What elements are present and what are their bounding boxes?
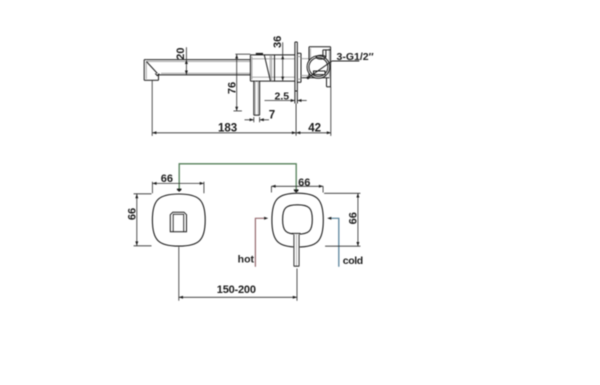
lever white mask — [293, 233, 299, 267]
cold wire arrow — [327, 217, 331, 220]
150-200 arrows — [179, 296, 183, 299]
housing top-right pipe notch — [323, 50, 331, 57]
right plate side 66 dim — [324, 192, 360, 194]
left escutcheon plate (spout, rounded square) — [152, 194, 205, 246]
150-200 dim — [178, 247, 180, 301]
in-wall valve housing — [302, 47, 331, 87]
extension line below plate (183/42 split) — [295, 104, 297, 136]
slot inside cartridge circle — [314, 71, 326, 75]
dim 42 arrows — [296, 131, 300, 134]
dimension lines, top view — [152, 42, 331, 136]
svg-text:183: 183 — [218, 122, 237, 134]
cartridge circle (G1/2 connection) — [307, 56, 330, 79]
dim 2.5 arrows — [291, 99, 295, 102]
svg-text:7: 7 — [269, 110, 275, 122]
wall escutcheon plate, edge-on — [295, 42, 297, 104]
svg-text:66: 66 — [347, 212, 359, 224]
dim 7 arrows — [250, 118, 264, 121]
dim 183 arrows — [152, 131, 156, 134]
outlet connection wire (green), mixer to spout — [179, 164, 296, 191]
housing bottom-right mounting clip — [327, 78, 331, 87]
dim 183 and 42 shared line — [152, 132, 331, 134]
svg-text:66: 66 — [161, 173, 173, 185]
svg-text:20: 20 — [175, 47, 187, 59]
green wire arrow at left plate — [177, 189, 182, 192]
set screw on body top — [256, 53, 263, 55]
svg-text:150-200: 150-200 — [217, 284, 256, 296]
svg-text:3-G1/2″: 3-G1/2″ — [337, 51, 374, 63]
hot wire arrow — [264, 217, 268, 220]
spout tip with aerator notch — [144, 60, 159, 81]
svg-text:cold: cold — [343, 255, 363, 267]
left plate side 66 dim — [134, 193, 152, 195]
svg-text:66: 66 — [298, 177, 310, 189]
svg-text:2.5: 2.5 — [274, 90, 289, 102]
spout tube (horizontal outlet pipe) — [146, 60, 250, 75]
svg-text:66: 66 — [127, 208, 139, 220]
svg-text:hot: hot — [238, 254, 255, 266]
connecting nipple behind plate — [297, 53, 309, 82]
dimension lines, bottom view — [134, 182, 361, 301]
leader line for 3-G1/2 label — [307, 61, 360, 79]
svg-text:42: 42 — [308, 122, 321, 134]
left top 66 arrows — [152, 182, 156, 185]
hot supply wire (dark red) — [255, 218, 264, 266]
right escutcheon plate (mixer, rounded square) — [272, 193, 323, 247]
cold supply wire (blue) — [331, 218, 339, 266]
dim 36 arrows — [281, 55, 284, 59]
mixer handle stem (side view, hanging down) — [254, 81, 260, 115]
dim 2.5 lines — [265, 100, 295, 102]
mixer lever handle pointing down — [291, 233, 300, 266]
left side 66 arrows — [135, 194, 138, 198]
extension line at housing right — [330, 87, 332, 136]
cartridge cap ellipse — [316, 55, 325, 59]
dim 20 line — [185, 47, 187, 75]
spout nose front view, outer — [170, 212, 186, 232]
dim 20 arrows — [185, 60, 188, 64]
right plate top 66 dim — [270, 186, 272, 192]
right top 66 arrows — [271, 185, 275, 188]
green wire arrow at right plate — [294, 189, 299, 193]
right side 66 arrows — [356, 193, 359, 197]
svg-text:36: 36 — [272, 36, 284, 48]
dim 36 line — [282, 42, 284, 81]
svg-text:76: 76 — [227, 82, 239, 94]
diagonal break line across body — [264, 55, 270, 81]
spout nose front view, inner — [173, 214, 184, 232]
left plate top 66 dim — [151, 182, 153, 194]
dim 76 line with extensions — [235, 53, 250, 55]
arrowheads, bottom view dims — [135, 182, 359, 299]
dim 76 arrows — [235, 54, 238, 58]
arrowheads, top view dims — [152, 54, 331, 134]
mixer inner ring — [283, 205, 313, 234]
extension line at spout tip — [151, 80, 153, 136]
dim 7 lines under stem — [245, 117, 270, 122]
spout mounting body block — [250, 55, 295, 81]
